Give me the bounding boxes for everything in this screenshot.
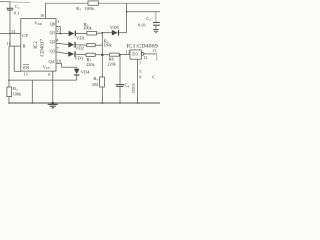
- svg-text:IC2: IC2: [34, 41, 39, 49]
- svg-text:100k: 100k: [83, 26, 92, 31]
- svg-text:220k: 220k: [107, 61, 116, 66]
- svg-text:220k: 220k: [86, 62, 95, 67]
- svg-text:C: C: [152, 74, 155, 79]
- svg-text:VSS: VSS: [43, 64, 50, 70]
- svg-text:VD2: VD2: [75, 46, 85, 51]
- svg-text:CP: CP: [22, 33, 28, 38]
- svg-text:C4: C4: [125, 83, 130, 89]
- svg-text:15: 15: [7, 41, 11, 46]
- svg-text:100k: 100k: [13, 92, 22, 97]
- svg-text:CD4017: CD4017: [40, 39, 46, 57]
- svg-text:C1: C1: [15, 4, 20, 10]
- svg-text:100k: 100k: [85, 6, 95, 11]
- svg-text:R1: R1: [76, 6, 81, 12]
- svg-text:7: 7: [139, 60, 141, 65]
- svg-text:13: 13: [24, 71, 28, 76]
- svg-text:9: 9: [139, 74, 141, 79]
- svg-text:7: 7: [57, 46, 59, 51]
- svg-text:10: 10: [57, 58, 61, 63]
- svg-text:3: 3: [57, 19, 59, 24]
- svg-text:VD5: VD5: [110, 25, 120, 30]
- svg-text:Q0: Q0: [50, 21, 56, 26]
- svg-text:13: 13: [126, 49, 130, 54]
- svg-text:5: 5: [139, 69, 141, 74]
- svg-text:8: 8: [48, 72, 50, 77]
- svg-text:0.1: 0.1: [14, 10, 20, 15]
- svg-text:VDD: VDD: [34, 20, 43, 26]
- svg-text:11: 11: [153, 48, 157, 53]
- svg-text:VD4: VD4: [81, 70, 91, 75]
- svg-text:0.022: 0.022: [131, 84, 136, 94]
- svg-text:0.01: 0.01: [138, 23, 147, 28]
- svg-text:12: 12: [143, 55, 147, 60]
- svg-text:2M: 2M: [92, 82, 98, 87]
- svg-text:Q3: Q3: [50, 49, 56, 54]
- svg-text:16: 16: [40, 13, 44, 18]
- svg-text:VD1: VD1: [76, 36, 86, 41]
- svg-text:VD3: VD3: [74, 56, 84, 61]
- svg-text:EN: EN: [23, 65, 30, 70]
- svg-text:Q2: Q2: [50, 39, 56, 44]
- svg-text:180k: 180k: [103, 42, 112, 47]
- svg-text:D3: D3: [132, 52, 138, 57]
- svg-text:Q1: Q1: [50, 30, 56, 35]
- svg-text:Q4: Q4: [49, 59, 55, 64]
- svg-text:C2: C2: [146, 16, 151, 22]
- svg-text:2: 2: [57, 28, 59, 33]
